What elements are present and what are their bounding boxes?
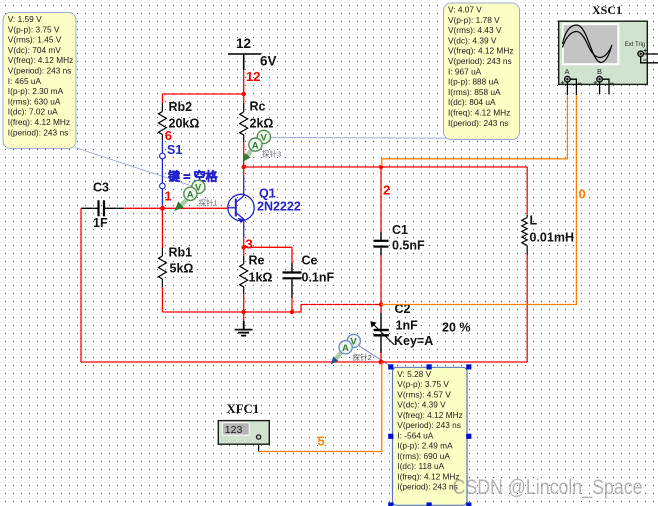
probe measurement box 1 (top left) bbox=[3, 13, 76, 149]
wire: supply horizontal to Rb2 bbox=[162, 93, 243, 95]
svg-text:5kΩ: 5kΩ bbox=[170, 262, 194, 276]
capacitor Ce 0.1nF bbox=[283, 263, 302, 298]
svg-text:V(dc): 4.39 V: V(dc): 4.39 V bbox=[397, 400, 446, 410]
junction C1/C2 node bbox=[379, 302, 383, 306]
capacitor C3 1F bbox=[81, 200, 124, 216]
probe 1 (green, node 1) bbox=[175, 180, 205, 211]
svg-text:2: 2 bbox=[383, 183, 390, 198]
wire: emitter stub to node 3 bbox=[243, 237, 245, 247]
svg-text:I(dc): 118 uA: I(dc): 118 uA bbox=[397, 461, 444, 471]
svg-text:I(freq): 4.12 MHz: I(freq): 4.12 MHz bbox=[448, 108, 510, 118]
svg-text:Ext Trig: Ext Trig bbox=[625, 42, 645, 48]
svg-text:20kΩ: 20kΩ bbox=[169, 117, 200, 131]
svg-text:I(freq): 4.12 MHz: I(freq): 4.12 MHz bbox=[8, 117, 70, 127]
svg-text:V(period): 243 ns: V(period): 243 ns bbox=[397, 420, 461, 430]
svg-text:123: 123 bbox=[225, 424, 243, 436]
wire: bottom rail bbox=[81, 361, 527, 363]
svg-text:I(rms): 858 uA: I(rms): 858 uA bbox=[448, 87, 501, 97]
wire: C2 top lead bbox=[380, 305, 382, 314]
svg-text:键 = 空格: 键 = 空格 bbox=[168, 169, 218, 184]
probe 3 (green, collector) bbox=[243, 130, 271, 162]
svg-text:0: 0 bbox=[579, 187, 586, 202]
svg-text:V(period): 243 ns: V(period): 243 ns bbox=[448, 56, 512, 66]
svg-text:1nF: 1nF bbox=[396, 319, 419, 333]
svg-text:探针2: 探针2 bbox=[353, 352, 372, 362]
svg-text:V(freq): 4.12 MHz: V(freq): 4.12 MHz bbox=[448, 46, 513, 56]
svg-text:I(period): 243 ns: I(period): 243 ns bbox=[448, 118, 508, 128]
wire: right rail top (to L) bbox=[526, 167, 528, 215]
svg-text:S1: S1 bbox=[167, 143, 182, 157]
junction node 3 bbox=[242, 245, 246, 249]
wire: scope A- black jog bbox=[570, 79, 576, 95]
svg-text:L: L bbox=[530, 214, 538, 228]
svg-text:Q1: Q1 bbox=[259, 187, 276, 201]
leader line from probe 2 to probe box 3 bbox=[357, 345, 391, 367]
svg-text:2N2222: 2N2222 bbox=[257, 200, 301, 214]
wire: Rb1 branch from node 1 bbox=[161, 208, 163, 248]
capacitor C1 0.5nF bbox=[374, 232, 389, 255]
svg-text:Key=A: Key=A bbox=[394, 334, 433, 348]
wire: ext trig stubs bbox=[644, 53, 658, 55]
wire: Rb1 bottom to emitter rail bbox=[161, 287, 163, 312]
wire: Rc top lead red bbox=[243, 94, 245, 103]
wire: scope B stubs bbox=[599, 82, 601, 94]
svg-text:XSC1: XSC1 bbox=[592, 3, 622, 17]
svg-text:12: 12 bbox=[236, 36, 251, 51]
label key = space (Chinese) bbox=[168, 169, 218, 184]
svg-text:C3: C3 bbox=[93, 181, 109, 195]
svg-text:6V: 6V bbox=[260, 54, 277, 69]
inductor L 0.01mH bbox=[522, 215, 527, 255]
svg-text:2kΩ: 2kΩ bbox=[250, 117, 274, 131]
svg-text:V(freq): 4.12 MHz: V(freq): 4.12 MHz bbox=[397, 410, 462, 420]
svg-text:V(dc): 4.39 V: V(dc): 4.39 V bbox=[448, 35, 497, 45]
junction collector node bbox=[242, 165, 246, 169]
svg-text:I(dc): 804 uA: I(dc): 804 uA bbox=[448, 97, 496, 107]
svg-text:V(p-p): 3.75 V: V(p-p): 3.75 V bbox=[397, 379, 449, 389]
junction node 2 top bbox=[379, 165, 383, 169]
ground bbox=[243, 312, 245, 321]
svg-text:探针3: 探针3 bbox=[262, 149, 281, 159]
junction C2 bottom at rail bbox=[379, 360, 384, 365]
resistor Rb1 5kOhm bbox=[158, 248, 166, 287]
frequency counter XFC1 bbox=[218, 421, 269, 445]
svg-text:I: -564 uA: I: -564 uA bbox=[397, 430, 433, 440]
resistor Rb2 20kOhm bbox=[158, 103, 166, 140]
svg-text:V(rms): 1.45 V: V(rms): 1.45 V bbox=[8, 35, 62, 45]
svg-text:Re: Re bbox=[249, 254, 265, 268]
svg-text:V(freq): 4.12 MHz: V(freq): 4.12 MHz bbox=[8, 55, 73, 65]
wire: collector rail (top) bbox=[244, 166, 528, 168]
svg-text:V(period): 243 ns: V(period): 243 ns bbox=[8, 66, 72, 76]
wire: orange XFC1 to bottom rail bbox=[259, 362, 382, 452]
svg-text:B: B bbox=[597, 67, 602, 76]
svg-text:I(dc): 7.02 uA: I(dc): 7.02 uA bbox=[8, 107, 58, 117]
svg-text:1kΩ: 1kΩ bbox=[249, 271, 273, 285]
wire: Ce bottom lead bbox=[291, 298, 293, 312]
svg-text:1: 1 bbox=[165, 188, 172, 203]
resistor Re 1kOhm bbox=[240, 256, 248, 294]
svg-text:12: 12 bbox=[246, 69, 260, 84]
svg-text:A: A bbox=[187, 190, 194, 201]
arrow head of variable capacitor C2 bbox=[370, 321, 376, 327]
svg-text:Rc: Rc bbox=[250, 100, 266, 114]
svg-text:3: 3 bbox=[246, 237, 253, 252]
svg-text:0.5nF: 0.5nF bbox=[392, 239, 425, 253]
wire: scope A+ black stub bbox=[566, 82, 568, 95]
wire: orange scope A- to C1/C2 node bbox=[381, 95, 576, 305]
wire: right rail bottom bbox=[526, 255, 528, 362]
svg-text:Rb2: Rb2 bbox=[169, 100, 193, 114]
svg-text:V(rms): 4.57 V: V(rms): 4.57 V bbox=[397, 389, 451, 399]
svg-text:Ce: Ce bbox=[302, 254, 318, 268]
svg-text:I(p-p): 888 uA: I(p-p): 888 uA bbox=[448, 77, 499, 87]
svg-text:I: 465 uA: I: 465 uA bbox=[8, 76, 42, 86]
svg-text:CSDN @Lincoln_Space: CSDN @Lincoln_Space bbox=[453, 476, 643, 499]
probe measurement box 2 (top right) bbox=[444, 3, 520, 140]
svg-text:I(rms): 690 uA: I(rms): 690 uA bbox=[397, 451, 450, 461]
capacitor C2 1nF variable bbox=[373, 313, 395, 353]
wire: orange scope A+ to node 2 bbox=[382, 95, 568, 166]
resistor Rc 2kOhm bbox=[240, 103, 248, 142]
wire: Re bottom lead bbox=[243, 294, 245, 312]
svg-text:V: 5.28 V: V: 5.28 V bbox=[397, 369, 431, 379]
svg-text:Rb1: Rb1 bbox=[169, 246, 193, 260]
wire: C2 bottom lead bbox=[380, 353, 382, 362]
wire: Rc bottom to collector junction bbox=[243, 142, 245, 167]
junction Ce bottom bbox=[290, 310, 294, 314]
power source V1 6V bar symbol bbox=[228, 54, 261, 70]
svg-text:I: 967 uA: I: 967 uA bbox=[448, 66, 482, 76]
svg-text:5: 5 bbox=[318, 434, 325, 449]
svg-text:V(dc): 704 mV: V(dc): 704 mV bbox=[8, 45, 61, 55]
svg-text:C1: C1 bbox=[392, 223, 408, 237]
svg-text:20 %: 20 % bbox=[442, 321, 471, 335]
leader line from probe 3 to probe box 2 bbox=[271, 137, 518, 138]
wire: Re top lead red bbox=[243, 247, 245, 256]
wire: C1 branch top bbox=[380, 167, 382, 232]
wire: node 3 rail to Ce bbox=[244, 246, 292, 248]
svg-text:0.01mH: 0.01mH bbox=[530, 231, 574, 245]
wire: Rb2 top lead bbox=[161, 94, 163, 103]
svg-text:I(rms): 630 uA: I(rms): 630 uA bbox=[8, 96, 61, 106]
svg-text:A: A bbox=[565, 67, 570, 76]
junction Re bottom bbox=[242, 310, 246, 314]
svg-text:A: A bbox=[252, 140, 259, 151]
svg-text:I(freq): 4.12 MHz: I(freq): 4.12 MHz bbox=[397, 471, 459, 481]
junction node 1 bbox=[160, 206, 165, 211]
wire: XFC1 terminal stub bbox=[258, 439, 260, 452]
svg-text:I(period): 243 ns: I(period): 243 ns bbox=[8, 127, 68, 137]
svg-text:V(p-p): 1.78 V: V(p-p): 1.78 V bbox=[448, 15, 500, 25]
svg-text:0.1nF: 0.1nF bbox=[302, 271, 335, 285]
switch S1 vertical with contacts bbox=[161, 140, 163, 205]
probe 2 (blue, output) bbox=[331, 334, 361, 364]
leader line from probe box 1 to probe 1 bbox=[75, 148, 192, 187]
svg-text:I(p-p): 2.30 mA: I(p-p): 2.30 mA bbox=[8, 86, 64, 96]
svg-text:6: 6 bbox=[165, 128, 172, 143]
wire: left rail of feedback loop bbox=[80, 208, 82, 362]
wire: supply vertical red bbox=[243, 70, 245, 94]
probe measurement box 3 (bottom, selected) bbox=[393, 367, 468, 505]
svg-text:V(rms): 4.43 V: V(rms): 4.43 V bbox=[448, 25, 502, 35]
svg-text:XFC1: XFC1 bbox=[227, 402, 260, 416]
oscilloscope XSC1 bbox=[559, 21, 648, 84]
selection handles of probe box 3 bbox=[388, 364, 471, 506]
svg-text:A: A bbox=[342, 343, 349, 354]
wire: node 1 to base bbox=[161, 205, 163, 208]
junction at supply node bbox=[242, 92, 246, 96]
wire: emitter rail step to C1/C2 node bbox=[292, 305, 381, 313]
svg-text:探针1: 探针1 bbox=[199, 197, 218, 207]
svg-text:V(p-p): 3.75 V: V(p-p): 3.75 V bbox=[8, 24, 60, 34]
svg-text:I(p-p): 2.49 mA: I(p-p): 2.49 mA bbox=[397, 441, 453, 451]
svg-text:V: 1.59 V: V: 1.59 V bbox=[8, 14, 42, 24]
wire: collector stub bbox=[243, 167, 245, 176]
svg-text:I(period): 243 ns: I(period): 243 ns bbox=[397, 482, 457, 492]
wire: C1 bottom to node bbox=[380, 255, 382, 305]
transistor Q1 2N2222 bbox=[227, 176, 254, 237]
svg-text:1F: 1F bbox=[93, 216, 108, 230]
svg-text:V: 4.07 V: V: 4.07 V bbox=[448, 5, 482, 15]
